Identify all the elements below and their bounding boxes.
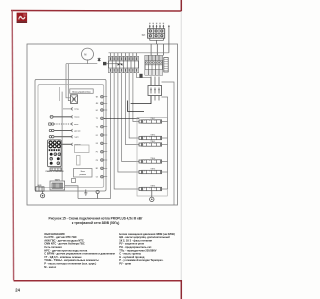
svg-text:С1: С1 [96,177,98,179]
wire pump drop [87,59,89,63]
svg-text:т.дат.: т.дат. [74,137,79,139]
svg-text:Блок: Блок [81,171,85,173]
sensor plug S3 [49,129,54,131]
svg-text:Ф2: Ф2 [96,102,98,105]
pump P1 [82,48,94,60]
power wire L1 [128,101,144,112]
svg-text:Ф1: Ф1 [96,96,98,99]
wire display to neutral [65,186,78,199]
legend column right [119,232,175,266]
collector drop wire [156,40,158,44]
svg-text:Н1: Н1 [96,110,98,112]
heater block enclosure [137,118,167,197]
power wire L2 [131,96,151,104]
sensor plug S2 [49,123,54,125]
wire contactor right top [162,82,175,205]
svg-text:розжига: розжига [80,174,86,176]
wire to igniter a [66,64,71,98]
bus link wire over strips [109,52,169,54]
heater element TEN6 [139,186,168,191]
svg-text:Р1: Р1 [96,152,98,154]
indicator header [36,185,45,191]
contactor KM1 [148,77,162,101]
heater element TEN4 [139,157,168,163]
svg-text:датчик: датчик [74,130,80,132]
page margin gray rule [180,11,182,280]
svg-text:M: M [84,53,86,57]
heater element TEN1 [139,118,168,123]
brand logo [17,13,28,23]
wire contactor to heater bus [162,97,168,189]
wire panel to board [61,143,71,145]
svg-text:вент.: вент. [74,124,79,126]
earth riser wire [168,26,170,53]
earth wire arrow [168,25,170,27]
wire to igniter b [68,64,70,101]
control board left edge stub [59,87,61,101]
fuse F3 [139,74,142,78]
terminal block XT mains [148,29,165,39]
boiler cabinet outline [27,44,178,205]
wire sensor row5 [54,136,71,138]
panel cable header [50,168,62,171]
flame sensor [96,190,99,198]
svg-text:Р2: Р2 [96,160,98,162]
page frame top rule [11,10,181,13]
chassis ground [84,190,87,196]
heater element TEN5 [139,169,168,174]
svg-text:24: 24 [15,287,20,292]
control panel connector [48,140,62,167]
wire pump to strip X2 [66,63,97,65]
ground terminal [150,191,154,202]
svg-text:к трехфазной сети 380В (50Гц): к трехфазной сети 380В (50Гц) [72,221,120,225]
plug J2 [71,115,79,118]
wire fuse to strip X2 [106,63,122,65]
control board output terminals [96,95,107,178]
svg-text:М - насос: М - насос [44,265,56,269]
svg-text:Рисунок 15 - Схема подключения: Рисунок 15 - Схема подключения котла PRO… [49,216,143,220]
heater element TEN3 [139,141,168,146]
wire sensor row1 [63,108,71,110]
page frame right rule upper [180,0,182,11]
marker strip X3 [164,58,168,73]
control unit outer enclosure [35,79,106,191]
wires cabinet top to strip X1 [151,44,163,56]
svg-text:Блок управления: Блок управления [73,92,92,94]
svg-text:ТАБЛО: ТАБЛО [55,178,61,181]
svg-text:К2: К2 [96,143,98,145]
mains supply wires with arrows [149,23,164,29]
svg-text:К1: К1 [96,135,98,137]
spark plug [72,179,76,183]
display unit [50,178,65,190]
plug J4 [71,129,80,132]
relay module box [75,145,90,153]
wire sensor row2 [53,116,71,118]
heater element TEN2 [139,135,168,140]
page frame bottom rule [14,280,182,282]
jumper header [77,156,81,166]
page frame right rule lower [180,280,182,299]
terminal block collector bar [150,38,164,40]
sensor plug S4 [49,136,54,138]
indicator lamp [41,191,45,198]
svg-text:РУ - цепи: РУ - цепи [119,262,131,266]
plug J3 [71,123,79,126]
svg-text:Т1: Т1 [96,118,98,120]
legend column left [44,232,115,269]
igniter transformer T1 [71,95,78,104]
sensor plug S1 [50,115,53,118]
control unit inner enclosure [38,85,104,188]
plug J5 [71,135,79,138]
control board title box [70,89,93,93]
fuse F1 [103,62,106,65]
wire sensor row3 dashed [54,123,71,125]
ignition module box [74,169,93,178]
svg-text:В1: В1 [96,168,98,170]
earth mark [98,58,101,62]
plug J6 [71,143,82,146]
connector strip X2 [109,53,139,73]
vertical supply bus [78,73,151,199]
connector strip X1 [145,56,163,76]
page frame left rule [12,11,13,281]
svg-text:зонд: зонд [74,109,79,111]
power wire L3 [104,118,139,120]
svg-text:ЩС: ЩС [142,34,146,36]
svg-text:Т2: Т2 [96,127,98,129]
plug J1 [71,108,79,111]
svg-text:насос: насос [74,117,79,119]
control board left edge [61,92,63,182]
wire sensor row4 [54,130,71,132]
